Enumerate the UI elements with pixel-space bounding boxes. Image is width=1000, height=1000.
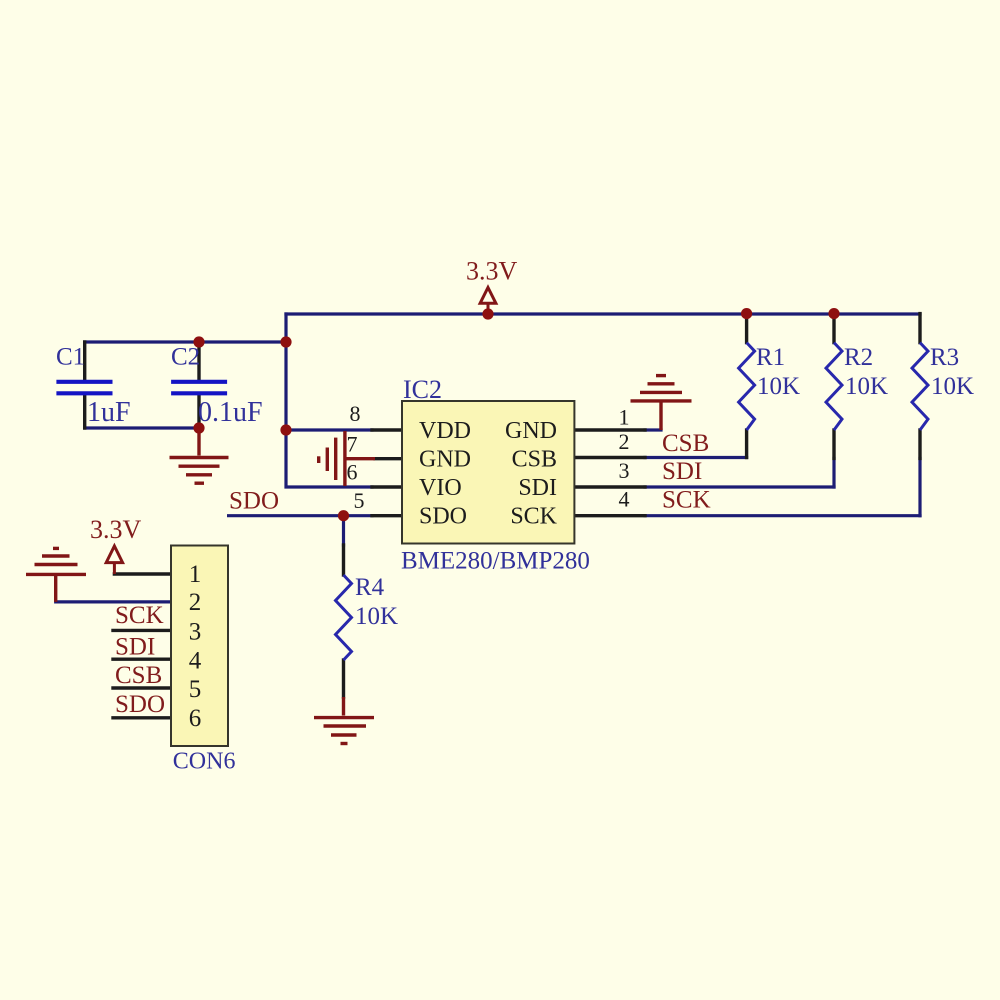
svg-text:SDO: SDO <box>229 488 279 515</box>
svg-text:10K: 10K <box>931 373 974 400</box>
svg-text:3: 3 <box>189 619 202 646</box>
svg-text:CSB: CSB <box>115 662 162 689</box>
svg-text:CON6: CON6 <box>173 748 236 774</box>
svg-text:CSB: CSB <box>662 430 709 457</box>
svg-text:1: 1 <box>619 405 630 430</box>
svg-text:3.3V: 3.3V <box>466 257 518 286</box>
svg-text:3: 3 <box>619 458 630 483</box>
svg-text:10K: 10K <box>845 373 888 400</box>
svg-text:1: 1 <box>189 561 202 588</box>
svg-text:GND: GND <box>505 418 557 444</box>
svg-text:5: 5 <box>354 488 365 513</box>
svg-text:10K: 10K <box>355 603 398 630</box>
svg-text:6: 6 <box>189 705 202 732</box>
svg-text:10K: 10K <box>757 373 800 400</box>
svg-text:VDD: VDD <box>419 418 471 444</box>
svg-text:GND: GND <box>419 447 471 473</box>
svg-text:R1: R1 <box>756 344 785 371</box>
svg-text:4: 4 <box>189 648 202 675</box>
svg-text:SCK: SCK <box>662 487 711 514</box>
svg-text:2: 2 <box>189 589 202 616</box>
svg-text:SDI: SDI <box>662 458 702 485</box>
svg-text:R3: R3 <box>930 344 959 371</box>
svg-text:7: 7 <box>347 432 358 457</box>
svg-text:R4: R4 <box>355 574 385 601</box>
svg-text:BME280/BMP280: BME280/BMP280 <box>401 548 590 575</box>
svg-text:SDI: SDI <box>115 634 155 661</box>
svg-text:6: 6 <box>347 460 358 485</box>
svg-text:IC2: IC2 <box>403 375 442 404</box>
svg-text:VIO: VIO <box>419 475 462 501</box>
svg-text:CSB: CSB <box>512 447 557 473</box>
svg-text:0.1uF: 0.1uF <box>198 397 263 428</box>
svg-text:SDO: SDO <box>419 504 467 530</box>
svg-text:R2: R2 <box>844 344 873 371</box>
svg-text:3.3V: 3.3V <box>90 515 142 544</box>
svg-text:C2: C2 <box>171 344 200 371</box>
svg-text:C1: C1 <box>56 344 85 371</box>
svg-text:SDI: SDI <box>518 475 557 501</box>
svg-text:SCK: SCK <box>510 504 557 530</box>
svg-text:4: 4 <box>619 487 630 512</box>
svg-text:8: 8 <box>350 401 361 426</box>
svg-text:1uF: 1uF <box>87 397 131 428</box>
svg-text:SDO: SDO <box>115 691 165 718</box>
svg-text:SCK: SCK <box>115 602 164 629</box>
svg-text:2: 2 <box>619 429 630 454</box>
svg-text:5: 5 <box>189 676 202 703</box>
